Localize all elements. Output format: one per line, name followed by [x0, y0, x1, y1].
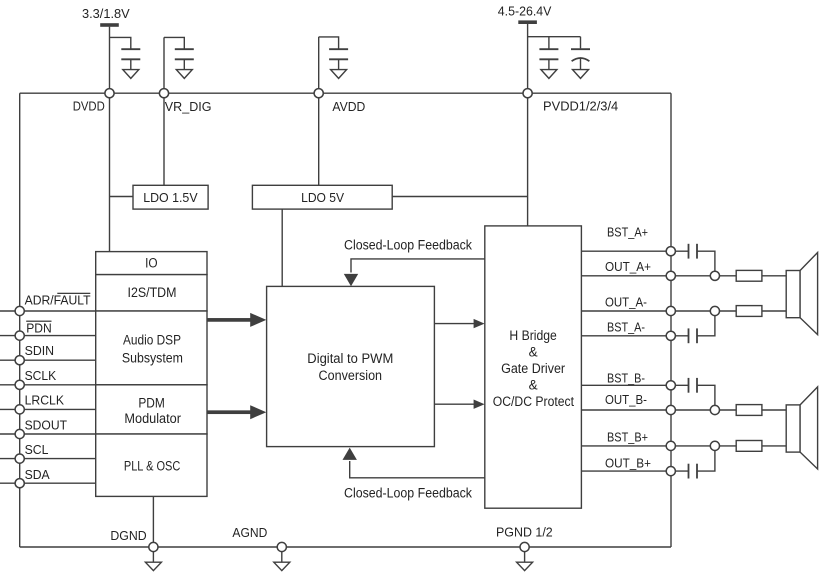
svg-text:Gate Driver: Gate Driver — [501, 361, 565, 376]
svg-text:PGND 1/2: PGND 1/2 — [496, 525, 553, 540]
wire: PLL to DGND — [152, 496, 154, 547]
svg-text:&: & — [529, 344, 538, 359]
resistor/ferrite L_OUT_A+ — [736, 270, 762, 281]
wire: OUT_A+ — [581, 275, 670, 277]
svg-text:ADR/FAULT: ADR/FAULT — [25, 293, 91, 308]
svg-text:OUT_B+: OUT_B+ — [605, 456, 651, 471]
svg-text:Audio DSP: Audio DSP — [123, 333, 181, 348]
wire: PVDD supply drop — [527, 24, 529, 226]
svg-text:SCLK: SCLK — [25, 368, 57, 383]
terminal: pin ADR/FAULT — [15, 306, 24, 315]
svg-text:Modulator: Modulator — [124, 411, 181, 426]
label Digital to PWM Conversion — [307, 351, 393, 383]
terminal: pin SDOUT — [15, 429, 24, 438]
capacitor C_OUT_B+ (bootstrap) — [671, 446, 715, 479]
label pin PDN (overlined) — [26, 320, 52, 335]
speaker B — [786, 387, 817, 469]
wire: OUT_A- to filter — [671, 310, 736, 312]
wire: PVDD cap branch — [528, 36, 581, 38]
capacitor C_BST_A- (bootstrap) — [671, 311, 715, 343]
terminal: pin LRCLK — [15, 405, 24, 414]
block U2: Digital to PWM Conversion — [267, 286, 435, 446]
svg-text:BST_A-: BST_A- — [607, 320, 645, 335]
wire: OUT_A- — [581, 310, 670, 312]
wire: BST_B- — [581, 384, 670, 386]
svg-text:LDO 5V: LDO 5V — [301, 190, 344, 205]
wire: pin LRCLK — [0, 408, 96, 410]
wire: AVDD drop — [318, 37, 320, 185]
wire: pin SDA — [0, 482, 96, 484]
wire: OUT_B- — [581, 409, 670, 411]
wire: DVDD supply drop — [109, 27, 111, 252]
wire: right output rail — [670, 93, 672, 547]
svg-text:4.5-26.4V: 4.5-26.4V — [498, 4, 552, 19]
ground DGND — [145, 552, 161, 571]
svg-text:SDIN: SDIN — [25, 343, 54, 358]
svg-text:Digital to PWM: Digital to PWM — [307, 351, 393, 366]
wire: OUT_A+ to filter — [671, 275, 736, 277]
node OUT_A+ junction — [710, 271, 719, 280]
capacitor C1 — [121, 49, 140, 69]
wire: BST_A- — [581, 335, 670, 337]
capacitor C2 — [175, 49, 194, 69]
svg-text:SCL: SCL — [25, 442, 49, 457]
wire: BST_B+ — [581, 445, 670, 447]
block U1b: I2S/TDM — [96, 275, 207, 311]
label pin ADR/FAULT (FAULT overlined) — [25, 293, 91, 308]
node VR_DIG — [159, 89, 168, 98]
svg-text:&: & — [529, 378, 538, 393]
ground of C2 — [176, 70, 192, 79]
node AVDD — [314, 89, 323, 98]
node BST_A- rail — [666, 331, 675, 340]
capacitor C_BST_A+ (bootstrap) — [671, 244, 715, 276]
node PVDD — [523, 89, 532, 98]
svg-text:SDA: SDA — [25, 467, 50, 482]
svg-text:PDN: PDN — [26, 320, 52, 335]
svg-text:IO: IO — [145, 256, 158, 271]
svg-text:3.3/1.8V: 3.3/1.8V — [82, 6, 130, 21]
wire: left input rail — [19, 93, 21, 547]
wire: top power bus — [20, 92, 671, 94]
wire: closed-loop feedback top — [344, 259, 485, 286]
svg-text:OUT_A+: OUT_A+ — [605, 259, 651, 274]
wire: pin SDIN — [0, 359, 96, 361]
node BST_B+ junction — [710, 441, 719, 450]
wire: pin SCL — [0, 458, 96, 460]
resistor/ferrite L_BST_B+ — [736, 441, 762, 452]
block U1d: PDM Modulator — [96, 385, 207, 434]
svg-text:VR_DIG: VR_DIG — [165, 99, 212, 114]
wire: LDO 5V output drop — [281, 209, 283, 286]
ground PGND — [517, 552, 533, 571]
svg-text:Closed-Loop Feedback: Closed-Loop Feedback — [344, 485, 472, 500]
capacitor C3 — [329, 49, 348, 69]
svg-text:LDO 1.5V: LDO 1.5V — [143, 190, 198, 205]
node OUT_A+ rail — [666, 271, 675, 280]
wire: VR_DIG drop — [163, 37, 165, 185]
label PDM Modulator — [124, 396, 181, 427]
wire: DVDD to LDO 1.5V — [110, 196, 134, 198]
wire: VR_DIG cap branch — [164, 37, 184, 49]
block U1e: PLL & OSC — [96, 434, 207, 496]
bus arrow: Audio DSP to PWM — [207, 313, 266, 327]
svg-text:PDM: PDM — [138, 396, 165, 411]
terminal: pin PDN — [15, 331, 24, 340]
ground of C3 — [331, 70, 347, 79]
svg-text:OUT_B-: OUT_B- — [605, 392, 647, 407]
bus arrow: PDM Modulator to PWM — [207, 405, 266, 419]
terminal: pin SDIN — [15, 356, 24, 365]
regulator LDO 1.5V — [133, 185, 208, 209]
wire: BST_B+ to speaker — [762, 445, 786, 447]
block U1a: IO — [96, 252, 207, 275]
svg-text:AVDD: AVDD — [332, 99, 365, 114]
ground of C4 — [541, 70, 557, 79]
svg-text:I2S/TDM: I2S/TDM — [128, 285, 177, 300]
svg-text:LRCLK: LRCLK — [25, 392, 65, 407]
ground of C5 — [573, 70, 589, 79]
wire: BST_B+ to filter — [671, 445, 736, 447]
svg-text:BST_A+: BST_A+ — [607, 225, 648, 240]
wire arrow: PWM to H-bridge (top) — [434, 319, 484, 328]
ground AGND — [274, 552, 290, 571]
svg-text:Closed-Loop Feedback: Closed-Loop Feedback — [344, 238, 472, 253]
wire: OUT_B- to speaker — [762, 409, 786, 411]
node BST_B+ rail — [666, 441, 675, 450]
node OUT_B+ rail — [666, 467, 675, 476]
resistor/ferrite L_OUT_A- — [736, 306, 762, 317]
svg-text:DVDD: DVDD — [73, 99, 105, 114]
node PGND — [520, 542, 529, 551]
wire: OUT_A- to speaker — [762, 310, 786, 312]
node OUT_A- rail — [666, 306, 675, 315]
wire: closed-loop feedback bottom — [343, 448, 485, 478]
svg-text:OUT_A-: OUT_A- — [605, 295, 647, 310]
wire arrow: PWM to H-bridge (bottom) — [434, 400, 484, 409]
resistor/ferrite L_OUT_B- — [736, 405, 762, 416]
wire: DVDD cap branch — [110, 37, 131, 49]
label H Bridge & Gate Driver & OC/DC Protect — [493, 328, 575, 409]
wire: bottom ground bus — [20, 546, 671, 548]
wire: pin SCLK — [0, 384, 96, 386]
svg-text:SDOUT: SDOUT — [25, 418, 67, 433]
svg-text:DGND: DGND — [110, 528, 146, 543]
svg-text:Conversion: Conversion — [319, 368, 383, 383]
node BST_B- rail — [666, 381, 675, 390]
svg-text:BST_B-: BST_B- — [607, 371, 645, 386]
node OUT_B- junction — [710, 405, 719, 414]
svg-text:OC/DC Protect: OC/DC Protect — [493, 394, 575, 409]
wire: BST_A+ — [581, 250, 670, 252]
svg-text:BST_B+: BST_B+ — [607, 429, 648, 444]
svg-text:AGND: AGND — [232, 525, 267, 540]
block U3: H Bridge / Gate Driver / OC-DC Protect — [485, 226, 582, 508]
capacitor C5 (polarized bulk) — [571, 37, 590, 70]
node OUT_B- rail — [666, 405, 675, 414]
ground of C1 — [123, 70, 139, 79]
wire: pin SDOUT — [0, 433, 96, 435]
terminal: pin SCLK — [15, 380, 24, 389]
wire: pin PDN — [0, 335, 96, 337]
node OUT_A- junction — [710, 306, 719, 315]
capacitor C_BST_B- (bootstrap) — [671, 378, 715, 410]
node DGND — [149, 542, 158, 551]
wire: pin ADR/FAULT — [0, 310, 96, 312]
node DVDD — [105, 89, 114, 98]
capacitor C4 — [539, 37, 558, 70]
terminal: pin SDA — [15, 479, 24, 488]
svg-text:H Bridge: H Bridge — [509, 328, 556, 343]
supply bar 3.3/1.8V — [100, 23, 119, 27]
block U1c: Audio DSP Subsystem — [96, 311, 207, 385]
wire: OUT_B+ — [581, 470, 670, 472]
svg-text:PVDD1/2/3/4: PVDD1/2/3/4 — [543, 98, 618, 113]
regulator LDO 5V — [252, 185, 392, 209]
speaker A — [786, 253, 817, 335]
wire: AVDD cap branch — [319, 37, 339, 49]
label Audio DSP Subsystem — [122, 333, 183, 366]
node BST_A+ rail — [666, 247, 675, 256]
wire: OUT_A+ to speaker — [762, 275, 786, 277]
svg-text:PLL & OSC: PLL & OSC — [124, 459, 181, 474]
node AGND — [277, 542, 286, 551]
svg-text:Subsystem: Subsystem — [122, 350, 183, 365]
wire: OUT_B- to filter — [671, 409, 736, 411]
supply bar 4.5-26.4V — [518, 20, 537, 24]
wire: LDO 5V to PVDD rail — [392, 196, 527, 198]
terminal: pin SCL — [15, 454, 24, 463]
